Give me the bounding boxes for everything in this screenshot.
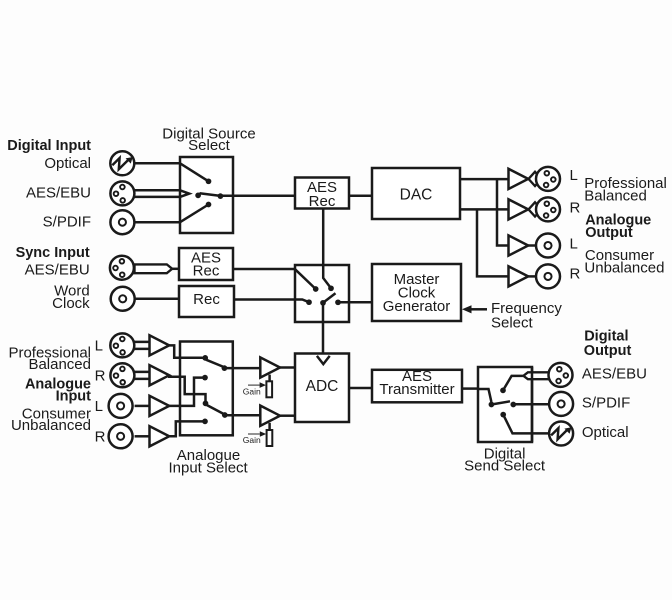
XLR R analogue input connector [110, 363, 134, 387]
wire AES Rec 2 to clock select [233, 268, 295, 271]
XLR AES/EBU digital output connector [549, 363, 573, 387]
svg-text:Rec: Rec [193, 291, 220, 308]
svg-text:Optical: Optical [582, 424, 629, 441]
wire select diag top [180, 163, 209, 181]
ADC box [295, 354, 349, 423]
XLR sync input connector [110, 256, 134, 280]
contact RCA R [202, 419, 208, 425]
wire optical to select [134, 162, 180, 165]
switch lever send select [491, 401, 510, 404]
svg-text:Send Select: Send Select [464, 458, 546, 475]
svg-text:Select: Select [188, 137, 231, 154]
input amp RCA R [150, 426, 170, 446]
wire send select right edge overlay [531, 367, 534, 442]
contact digital AES [328, 285, 334, 291]
gain pot R [267, 430, 273, 446]
wire AES/EBU double line [135, 190, 181, 197]
gain pot L [266, 381, 272, 397]
switch lever L select [206, 360, 224, 367]
svg-text:Generator: Generator [383, 298, 451, 315]
contact RCA L [202, 375, 208, 381]
wire AES transmitter to send select [462, 387, 478, 390]
svg-text:R: R [570, 265, 581, 282]
buffer amp L consumer [509, 235, 529, 255]
wire clock down to ADC [322, 303, 325, 354]
svg-text:Rec: Rec [193, 263, 220, 280]
RCA R analogue input connector [109, 424, 133, 448]
XLR R professional output [536, 197, 560, 221]
wire select diag bottom [180, 205, 209, 223]
gain amp R [260, 406, 280, 426]
contact optical out [500, 412, 506, 418]
svg-text:Sync Input: Sync Input [16, 245, 90, 261]
svg-text:AES/EBU: AES/EBU [582, 365, 647, 382]
wire XLR L in double [134, 342, 150, 349]
wire ADC to AES transmitter [349, 387, 372, 390]
svg-text:R: R [95, 368, 106, 385]
switch lever digital source [200, 193, 221, 196]
svg-text:Balanced: Balanced [28, 356, 91, 373]
wire XLR L to contact [169, 345, 202, 357]
svg-text:Unbalanced: Unbalanced [11, 417, 91, 434]
optical output connector [549, 422, 573, 446]
wire RCA R to contact [169, 421, 202, 436]
svg-text:ADC: ADC [306, 378, 339, 395]
svg-text:Clock: Clock [52, 295, 90, 312]
Digital Send Select box [478, 367, 532, 442]
input amp XLR L [150, 335, 170, 355]
wire amp R to pot [268, 423, 271, 430]
wire word clock to Rec [135, 298, 179, 301]
svg-text:Input: Input [56, 389, 92, 405]
wire RCA L to contact [169, 378, 202, 406]
wire RCA L in [135, 405, 150, 408]
wire R select out [225, 414, 260, 417]
svg-text:Unbalanced: Unbalanced [584, 260, 664, 277]
svg-text:Output: Output [584, 343, 632, 359]
RCA S/PDIF output connector [549, 392, 573, 416]
wire clock diag left [295, 269, 316, 289]
pole send select [489, 402, 495, 408]
pole clock select [320, 300, 326, 306]
wire amp to RCA L out [528, 244, 537, 247]
wire gain R to ADC [280, 414, 295, 417]
Digital Source Select box [180, 157, 233, 233]
wire amp L to pot [268, 375, 271, 382]
gain arrow L [248, 384, 260, 386]
svg-text:AES/EBU: AES/EBU [26, 185, 91, 202]
svg-text:L: L [95, 338, 103, 355]
wire contact to AES arrow [503, 376, 523, 391]
wire XLR R in double [134, 372, 150, 379]
svg-text:Digital Input: Digital Input [7, 138, 91, 154]
svg-text:Input Select: Input Select [168, 460, 248, 477]
wire RCA R in [135, 435, 150, 438]
svg-text:R: R [95, 429, 106, 446]
Master Clock Generator box [372, 264, 461, 321]
wire amp to RCA R out [528, 275, 537, 278]
contact XLR R [203, 401, 209, 407]
buffer amp R consumer [509, 266, 529, 286]
RCA word clock connector [111, 287, 135, 311]
svg-text:R: R [570, 199, 581, 216]
AES Transmitter box [372, 370, 462, 403]
svg-text:Gain: Gain [243, 387, 261, 397]
svg-text:Rec: Rec [309, 193, 336, 210]
sync hollow arrow [135, 264, 173, 273]
contact SPDIF out [510, 402, 516, 408]
input amp RCA L [150, 396, 170, 416]
wire XLR R to contact [169, 375, 205, 401]
digital out hollow arrow [523, 372, 549, 379]
Analogue Input Select box [180, 342, 233, 436]
balanced diamond R [529, 202, 542, 216]
svg-text:DAC: DAC [400, 186, 433, 203]
XLR L analogue input connector [110, 333, 134, 357]
clock select box [295, 265, 349, 322]
frequency select arrowhead [462, 305, 472, 313]
RCA L analogue input connector [109, 394, 133, 418]
AES Rec box 1 [295, 178, 349, 209]
wire frequency select [471, 308, 487, 311]
XLR AES/EBU input connector [110, 181, 134, 205]
gain arrow R [248, 433, 260, 435]
wire DAC L out [460, 178, 509, 181]
wire AES Rec to DAC [349, 195, 372, 198]
RCA L consumer output [536, 234, 560, 258]
pole L select [222, 365, 228, 371]
wire gain L to ADC [280, 366, 295, 369]
RCA R consumer output [536, 264, 560, 288]
wire select output to AES Rec [220, 195, 295, 198]
svg-text:Select: Select [491, 314, 534, 331]
switch lever clock select [323, 293, 336, 303]
input amp XLR R [150, 365, 170, 385]
svg-text:L: L [570, 235, 578, 252]
svg-text:S/PDIF: S/PDIF [582, 395, 630, 412]
wire to SPDIF out [513, 403, 549, 406]
contact optical [206, 178, 212, 184]
wire branch L consumer [497, 179, 509, 245]
balanced diamond L [529, 172, 542, 186]
contact AES/EBU [195, 193, 201, 199]
wire branch R consumer [477, 209, 509, 276]
svg-text:L: L [570, 167, 578, 184]
buffer amp L professional [509, 169, 529, 189]
wire clock to master clock generator [338, 301, 372, 304]
svg-text:Transmitter: Transmitter [379, 381, 454, 398]
wire arrow tip to AES Rec 2 [172, 268, 179, 271]
optical input connector [110, 151, 134, 175]
wire S/PDIF to select [135, 221, 181, 224]
node clock out [335, 299, 341, 305]
Rec box [179, 286, 234, 317]
wire L select out [224, 367, 260, 370]
wire to optical out [503, 415, 549, 434]
wire clock from top [323, 265, 331, 288]
switch lever R select [207, 405, 225, 414]
clock arrowhead into ADC [317, 356, 330, 364]
gain amp L [260, 357, 280, 377]
wire into send select [478, 389, 491, 402]
pole R select [222, 412, 228, 418]
svg-text:Output: Output [585, 225, 633, 241]
contact word clock [306, 299, 312, 305]
svg-text:AES/EBU: AES/EBU [25, 262, 90, 279]
wire DAC R out [460, 208, 509, 211]
wire Rec to clock select [234, 298, 295, 301]
svg-text:S/PDIF: S/PDIF [43, 214, 91, 231]
RCA S/PDIF input connector [110, 210, 134, 234]
svg-text:Optical: Optical [44, 155, 91, 172]
AES Rec box 2 [179, 248, 233, 280]
svg-text:Balanced: Balanced [584, 188, 647, 205]
wire clock from Rec [295, 300, 309, 303]
contact S/PDIF [206, 202, 212, 208]
DAC box [372, 168, 460, 219]
wire AES Rec down to clock select [322, 209, 325, 266]
buffer amp R professional [509, 199, 529, 219]
svg-text:Gain: Gain [243, 435, 261, 445]
pole digital source [218, 193, 224, 199]
svg-text:L: L [95, 398, 103, 415]
XLR L professional output [536, 167, 560, 191]
contact XLR L [202, 355, 208, 361]
contact AES out [500, 388, 506, 394]
contact sync AES [313, 286, 319, 292]
wire AES/EBU chevron [180, 190, 189, 197]
